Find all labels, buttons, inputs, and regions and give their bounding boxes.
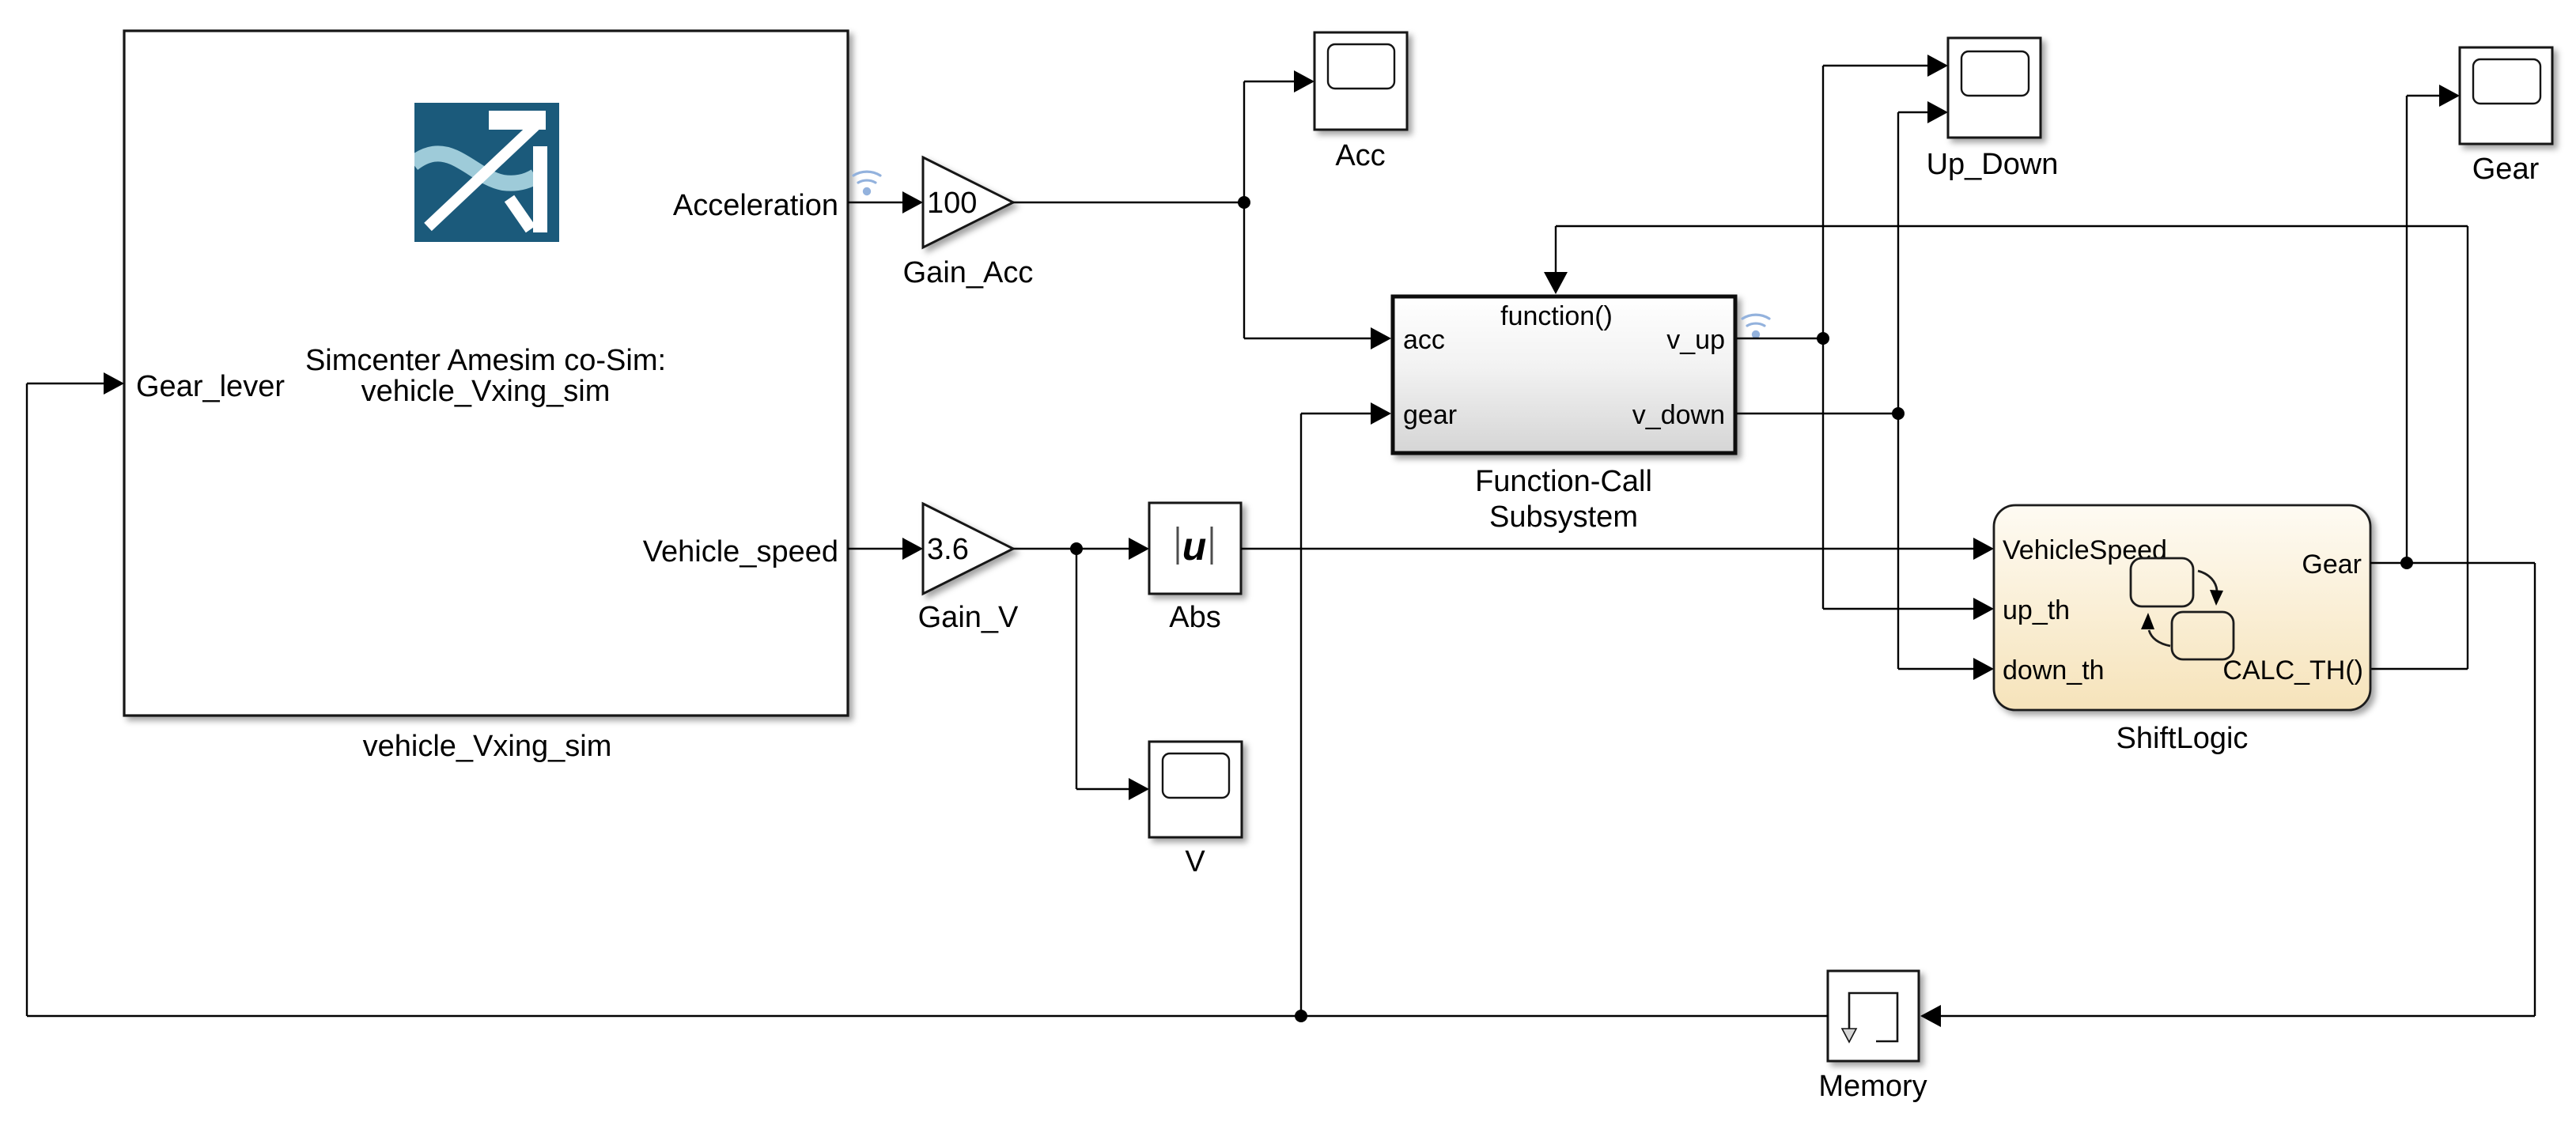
block Abs [1149,503,1241,594]
logging badge (wifi icon) on Acceleration signal [853,172,880,195]
svg-text:vehicle_Vxing_sim: vehicle_Vxing_sim [363,730,612,763]
scope Up_Down [1948,38,2041,138]
svg-text:vehicle_Vxing_sim: vehicle_Vxing_sim [361,375,611,408]
svg-text:Up_Down: Up_Down [1927,148,2059,181]
svg-text:u: u [1182,524,1207,568]
svg-text:V: V [1185,845,1205,878]
wire Acceleration port to Gain_Acc [848,191,923,213]
wire Memory output along bottom to left edge [27,1015,1828,1017]
svg-text:3.6: 3.6 [927,533,969,566]
wire left edge up to Gear_lever input [27,372,124,1016]
wire v_down output to junction [1737,413,1898,414]
svg-text:v_down: v_down [1632,400,1725,430]
scope V [1149,742,1242,837]
scope Acc [1314,32,1407,130]
junction dot on Acc signal [1238,196,1250,209]
gain Gain_V (value 3.6) [923,504,1013,594]
transition arrow state2 to state1 [2141,613,2170,646]
svg-text:CALC_TH(): CALC_TH() [2222,655,2363,685]
wire v_down junction down to ShiftLogic down_th [1898,414,1994,680]
block Memory [1828,971,1919,1061]
svg-text:Gear: Gear [2472,153,2540,186]
wire v_up output to junction [1737,338,1823,339]
wire trigger feedback from CALC_TH to function() input [1544,226,2468,669]
wire v_up junction down to ShiftLogic up_th [1823,338,1994,620]
wire Abs output to ShiftLogic VehicleSpeed [1241,538,1994,560]
svg-text:Gear_lever: Gear_lever [136,370,285,403]
Amesim logo icon [413,103,559,242]
wire junction down to acc input of Function-Call Subsystem [1244,202,1391,349]
svg-text:acc: acc [1403,325,1445,355]
wire Gear junction right and down to Memory input [1920,563,2535,1027]
state icon 2 inside ShiftLogic [2172,612,2234,659]
svg-text:Subsystem: Subsystem [1489,500,1638,534]
svg-text:Memory: Memory [1818,1070,1927,1103]
junction dot on v_down [1892,407,1905,420]
chart ShiftLogic (Stateflow) [1994,505,2370,710]
svg-text:Acceleration: Acceleration [673,189,838,222]
svg-text:Gear: Gear [2302,550,2362,580]
svg-text:VehicleSpeed: VehicleSpeed [2003,535,2167,565]
junction dot on gear feedback [1295,1010,1307,1022]
svg-text:Function-Call: Function-Call [1475,465,1652,498]
svg-text:v_up: v_up [1666,325,1725,355]
subsystem Function-Call Subsystem [1393,296,1735,453]
label Function-Call Subsystem [1475,465,1652,534]
junction dot on v_up [1817,332,1829,345]
svg-text:down_th: down_th [2003,655,2105,685]
wire junction up to Acc scope [1244,70,1314,202]
wire Vehicle_speed port to Gain_V [848,538,923,560]
transition arrow state1 to state2 [2198,571,2223,606]
subsystem vehicle_Vxing_sim (Simcenter Amesim co-sim block) [124,31,848,716]
svg-text:function(): function() [1500,301,1613,331]
svg-text:Vehicle_speed: Vehicle_speed [643,535,838,568]
svg-text:Abs: Abs [1169,601,1220,634]
svg-text:Gain_V: Gain_V [918,601,1019,634]
svg-text:Acc: Acc [1335,139,1385,172]
svg-text:Simcenter Amesim co-Sim:: Simcenter Amesim co-Sim: [305,344,666,377]
wire junction up to gear input of Function-Call Subsystem [1301,402,1391,1016]
svg-text:ShiftLogic: ShiftLogic [2116,722,2249,755]
svg-text:up_th: up_th [2003,595,2070,625]
wire Gain_V output to junction [1013,548,1076,550]
svg-text:gear: gear [1403,400,1457,430]
state icon 1 inside ShiftLogic [2131,558,2193,606]
wire v_down junction up to Up_Down scope input 2 [1898,101,1948,414]
junction dot on V signal [1070,542,1083,555]
wire v_up junction up to Up_Down scope input 1 [1823,55,1948,338]
logging badge (wifi icon) on v_up signal [1742,315,1769,338]
junction dot on Gear signal [2400,557,2413,569]
svg-text:100: 100 [927,187,977,220]
wire Gear output to junction [2370,562,2407,564]
wire Gear junction up to Gear scope [2407,85,2460,563]
wire Gain_Acc output to junction [1013,202,1244,203]
svg-text:Gain_Acc: Gain_Acc [903,256,1034,289]
wire junction to Abs input [1076,538,1149,560]
gain Gain_Acc (value 100) [923,157,1013,247]
scope Gear [2460,47,2552,144]
wire junction down to V scope [1076,549,1149,800]
block name text: Simcenter Amesim co-Sim: vehicle_Vxing_sim [305,344,666,408]
